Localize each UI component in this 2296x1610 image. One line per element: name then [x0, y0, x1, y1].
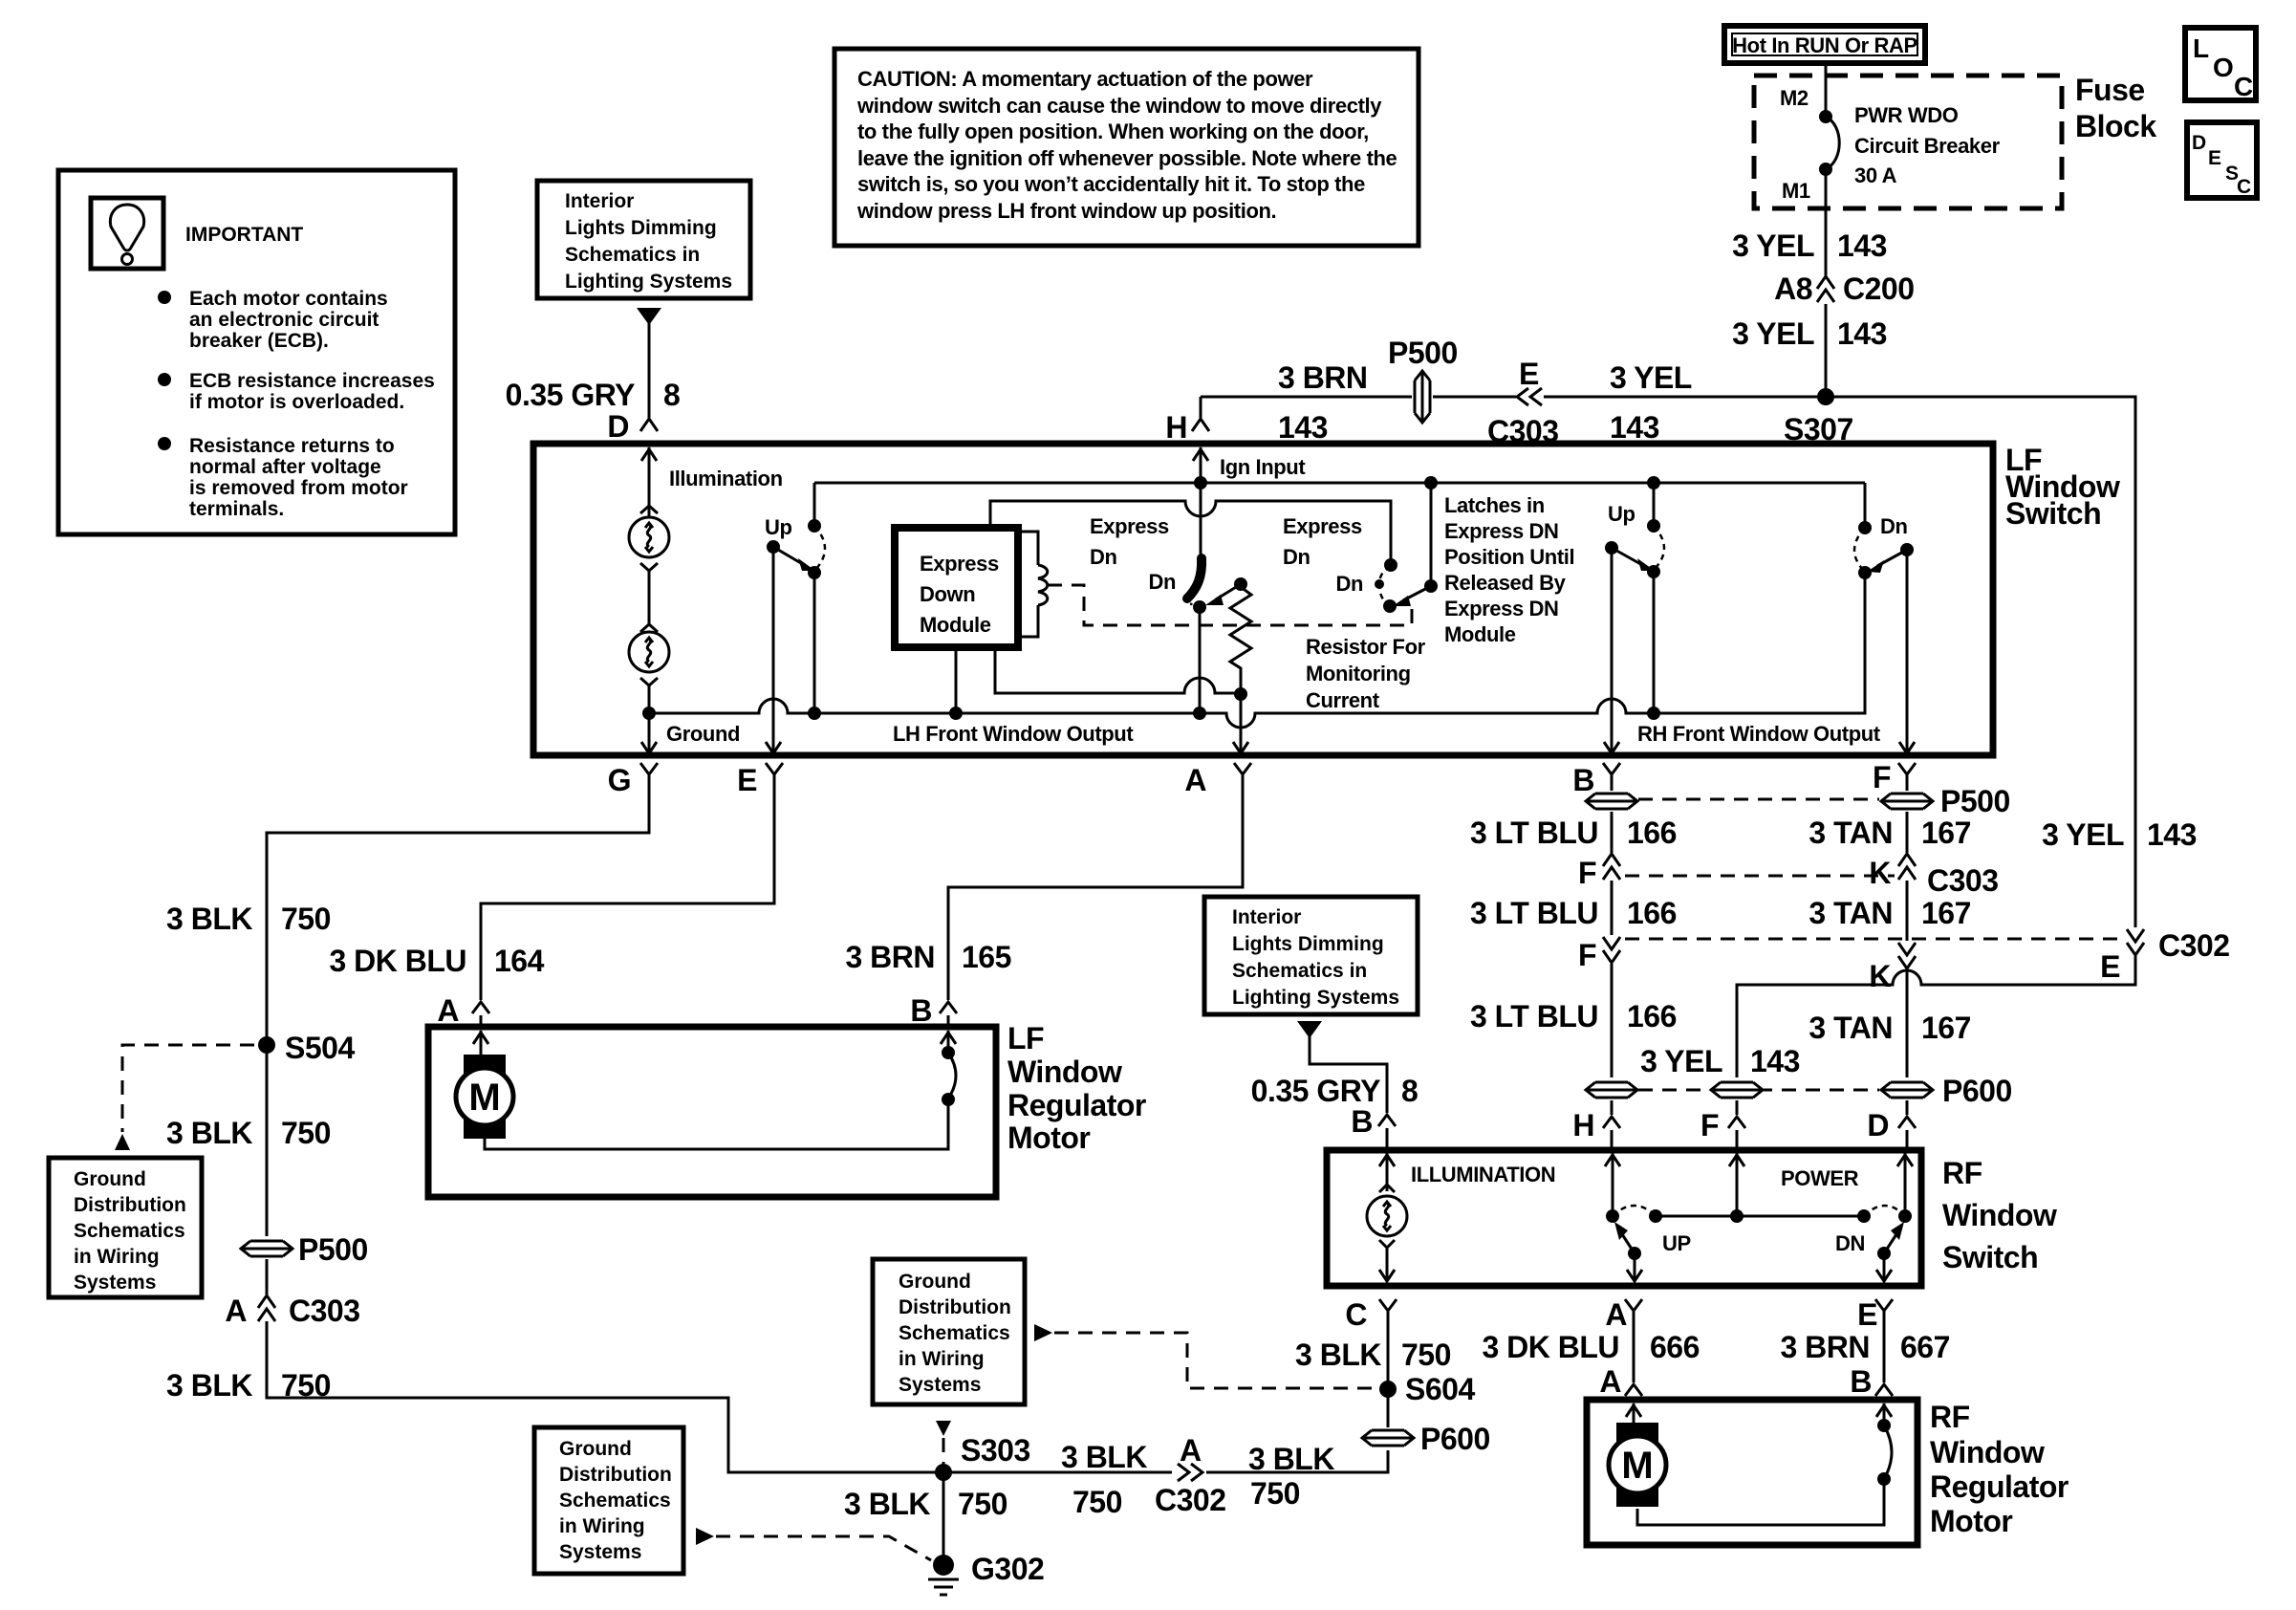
svg-text:H: H	[1165, 410, 1187, 445]
Ground Distribution note box (center)	[873, 1259, 1025, 1404]
svg-text:3 BLK: 3 BLK	[166, 1368, 252, 1403]
svg-text:Released By: Released By	[1444, 571, 1567, 595]
svg-text:Dn: Dn	[1283, 545, 1310, 569]
Illumination input arrow (D)	[648, 447, 651, 516]
splice S303	[935, 1464, 952, 1481]
svg-text:750: 750	[958, 1487, 1007, 1521]
terminal C of RF window switch	[1379, 1299, 1397, 1325]
svg-text:30 A: 30 A	[1854, 163, 1897, 187]
RH Up switch feed	[1647, 476, 1660, 490]
svg-text:Interior: Interior	[565, 190, 634, 212]
Fuse Block dashed box	[1754, 76, 2062, 208]
RF motor input arrows	[1633, 1403, 1635, 1425]
svg-text:143: 143	[1837, 316, 1887, 351]
svg-text:D: D	[607, 409, 629, 444]
svg-text:Fuse: Fuse	[2075, 73, 2145, 107]
svg-text:M1: M1	[1782, 179, 1810, 203]
svg-text:Resistor For: Resistor For	[1306, 635, 1426, 659]
terminal B of RF window switch	[1378, 1115, 1396, 1126]
circuit breaker PWR WDO 30A	[1819, 110, 1832, 123]
module circuit loop bottom	[995, 647, 1241, 693]
dashed link center box to S604	[1034, 1324, 1052, 1341]
svg-text:A: A	[1180, 1433, 1202, 1468]
LF Window Switch box	[533, 444, 1993, 755]
svg-text:3 DK BLU: 3 DK BLU	[329, 944, 466, 978]
svg-text:P600: P600	[1942, 1074, 2012, 1108]
svg-text:C: C	[2234, 72, 2253, 101]
Ground Distribution note box (left)	[49, 1158, 202, 1297]
svg-text:P500: P500	[1388, 336, 1458, 370]
RF switch F feed	[1736, 1153, 1739, 1216]
svg-text:3 YEL: 3 YEL	[1732, 316, 1814, 351]
LF motor input arrows	[480, 1031, 483, 1055]
svg-text:Regulator: Regulator	[1007, 1088, 1146, 1122]
svg-text:S604: S604	[1405, 1372, 1475, 1406]
LOC tag box	[2185, 28, 2256, 101]
illumination lamp 2	[640, 624, 658, 632]
svg-text:3 TAN: 3 TAN	[1809, 896, 1893, 930]
svg-text:Lights Dimming: Lights Dimming	[565, 217, 717, 239]
svg-text:3 BLK: 3 BLK	[1061, 1440, 1147, 1474]
svg-text:F: F	[1873, 760, 1891, 794]
svg-text:Dn: Dn	[1335, 572, 1363, 596]
svg-text:A: A	[1599, 1364, 1621, 1399]
svg-text:3 BLK: 3 BLK	[1295, 1338, 1381, 1372]
svg-text:B: B	[1850, 1364, 1872, 1399]
RF switch D feed	[1904, 1153, 1907, 1216]
wire from Hot tag to breaker	[1825, 63, 1828, 117]
RF DN switch	[1864, 1206, 1905, 1216]
terminal F of RF window switch	[1736, 1100, 1739, 1115]
ground G302	[933, 1555, 954, 1576]
svg-text:E: E	[737, 763, 757, 797]
splice S504	[258, 1036, 275, 1054]
svg-text:8: 8	[663, 378, 680, 412]
svg-text:3 TAN: 3 TAN	[1809, 816, 1893, 850]
svg-text:RF: RF	[1930, 1400, 1970, 1434]
svg-text:3 BLK: 3 BLK	[166, 1116, 252, 1150]
svg-text:166: 166	[1627, 896, 1677, 930]
svg-text:165: 165	[962, 940, 1011, 974]
wire 3 YEL 143 from breaker to S307	[1825, 169, 1828, 275]
svg-text:is removed from motor: is removed from motor	[189, 477, 408, 499]
svg-text:normal after voltage: normal after voltage	[189, 456, 381, 478]
svg-text:667: 667	[1900, 1330, 1950, 1364]
dashed link bottom box to G302	[696, 1528, 714, 1545]
wire E of LF switch to LF motor A (3 DK BLU 164)	[481, 789, 774, 1000]
svg-text:Circuit Breaker: Circuit Breaker	[1854, 134, 2001, 158]
wire S307 to right edge (3 YEL 143)	[1826, 397, 2135, 927]
svg-text:Regulator: Regulator	[1930, 1469, 2069, 1504]
svg-text:in Wiring: in Wiring	[74, 1246, 160, 1268]
ground bus wire (LH Front Window Output) with hops	[649, 573, 1865, 728]
svg-text:ECB resistance increases: ECB resistance increases	[189, 370, 435, 392]
module solenoid coil	[1018, 532, 1038, 637]
RH Up switch	[1647, 519, 1660, 533]
RF motor internal circuit breaker contacts	[1877, 1419, 1891, 1432]
svg-text:E: E	[1857, 1297, 1877, 1332]
svg-text:CAUTION: A momentary actuatio: CAUTION: A momentary actuation of the po…	[857, 67, 1313, 91]
connector C303 pin A	[258, 1295, 275, 1321]
svg-text:3 YEL: 3 YEL	[1732, 228, 1814, 263]
terminal H of LF window switch	[1200, 397, 1202, 418]
svg-text:UP: UP	[1662, 1231, 1691, 1255]
svg-text:Resistance returns to: Resistance returns to	[189, 435, 395, 457]
svg-text:750: 750	[1401, 1338, 1451, 1372]
wire RF switch E to RF motor B (3 BRN 667)	[1883, 1311, 1886, 1382]
svg-text:750: 750	[1072, 1485, 1122, 1519]
svg-text:C302: C302	[2158, 928, 2230, 963]
svg-text:window press LH front window u: window press LH front window up position…	[856, 199, 1276, 223]
LF Up switch: feed wire	[814, 482, 1865, 485]
mechanical dashed link coil to switches	[1048, 585, 1412, 625]
G output arrow	[648, 713, 651, 751]
RF switch power bus	[1656, 1215, 1864, 1218]
LF Window Regulator Motor box	[428, 1027, 996, 1197]
svg-text:C303: C303	[1927, 863, 1999, 898]
svg-text:Current: Current	[1306, 688, 1380, 712]
svg-text:143: 143	[2147, 817, 2197, 852]
dashed link from center ground box to S303	[936, 1421, 951, 1436]
svg-text:164: 164	[494, 944, 545, 978]
svg-text:Module: Module	[1444, 622, 1516, 646]
svg-text:Schematics: Schematics	[559, 1490, 671, 1512]
svg-text:C: C	[2237, 176, 2251, 198]
svg-text:an electronic circuit: an electronic circuit	[189, 309, 379, 331]
svg-text:Ign Input: Ign Input	[1220, 455, 1306, 479]
RF Window Switch box	[1327, 1150, 1921, 1286]
svg-text:3 YEL: 3 YEL	[1640, 1044, 1722, 1078]
dashed connector rows	[1638, 798, 1879, 801]
svg-text:143: 143	[1750, 1044, 1800, 1078]
svg-text:8: 8	[1401, 1074, 1418, 1108]
wire to C303	[266, 1259, 269, 1295]
svg-text:switch is, so you won’t accide: switch is, so you won’t accidentally hit…	[857, 172, 1365, 196]
svg-text:IMPORTANT: IMPORTANT	[185, 224, 303, 246]
svg-text:Lighting Systems: Lighting Systems	[565, 271, 732, 293]
inline connector P600 on C-wire	[1361, 1427, 1415, 1448]
terminal B of LF motor	[940, 1002, 957, 1013]
svg-text:POWER: POWER	[1781, 1166, 1859, 1190]
svg-text:Express DN: Express DN	[1444, 597, 1559, 620]
svg-text:3 YEL: 3 YEL	[2042, 817, 2124, 852]
svg-text:3 LT BLU: 3 LT BLU	[1470, 896, 1598, 930]
svg-text:Schematics in: Schematics in	[565, 244, 700, 266]
svg-text:C303: C303	[289, 1294, 360, 1328]
Interior Lights Dimming note box (top)	[537, 181, 750, 298]
LF motor internal circuit breaker contacts	[942, 1046, 955, 1059]
svg-text:Express: Express	[920, 552, 999, 576]
Hot In RUN Or RAP power tag	[1724, 26, 1925, 63]
svg-text:3 DK BLU: 3 DK BLU	[1482, 1330, 1619, 1364]
ground wire run to S303	[267, 1321, 1172, 1472]
B output wire from RH Up pivot	[1611, 548, 1614, 751]
svg-text:Schematics: Schematics	[899, 1322, 1010, 1344]
Ign Input arrow (H)	[1200, 447, 1202, 483]
svg-text:167: 167	[1921, 816, 1971, 850]
Ground Distribution note box (bottom)	[534, 1427, 683, 1574]
wire B of LF switch down to RF switch H (3 LT BLU 166)	[1611, 789, 1614, 791]
svg-text:Down: Down	[920, 582, 975, 606]
svg-text:B: B	[1351, 1104, 1373, 1139]
terminal D of LF window switch	[640, 404, 658, 431]
RH Dn switch	[1858, 521, 1872, 534]
svg-text:D: D	[1867, 1108, 1889, 1142]
svg-text:3 BRN: 3 BRN	[1278, 360, 1368, 395]
svg-text:S303: S303	[961, 1433, 1030, 1468]
svg-text:F: F	[1700, 1108, 1719, 1142]
wire F of LF switch down to RF switch D (3 TAN 167)	[1906, 789, 1909, 791]
svg-text:G: G	[608, 763, 631, 797]
svg-text:terminals.: terminals.	[189, 498, 284, 520]
svg-text:Up: Up	[1608, 502, 1635, 526]
svg-text:143: 143	[1610, 410, 1659, 445]
svg-text:Ground: Ground	[559, 1438, 632, 1460]
wire S303 to G302	[942, 1472, 945, 1558]
F output wire from RH Dn pivot	[1906, 550, 1909, 751]
ground wire G to S504/C303 run	[267, 789, 649, 1236]
svg-text:Systems: Systems	[899, 1374, 981, 1396]
svg-text:143: 143	[1278, 410, 1328, 445]
svg-text:A8: A8	[1774, 272, 1812, 306]
svg-text:0.35 GRY: 0.35 GRY	[506, 378, 635, 412]
connector C302 pin A (horizontal)	[1178, 1464, 1202, 1481]
svg-text:750: 750	[281, 1116, 331, 1150]
svg-text:window switch can cause the wi: window switch can cause the window to mo…	[856, 94, 1382, 118]
RF UP switch	[1613, 1206, 1656, 1216]
CAUTION note box	[834, 49, 1419, 246]
resistor for monitoring current	[1234, 577, 1247, 591]
svg-text:A: A	[225, 1294, 247, 1328]
svg-text:Switch: Switch	[2005, 496, 2101, 531]
svg-text:RF: RF	[1942, 1156, 1982, 1190]
svg-text:A: A	[1184, 763, 1206, 797]
RH Dn switch feed corner	[1864, 483, 1867, 527]
terminal B	[1603, 763, 1620, 789]
IMPORTANT note box	[58, 170, 455, 534]
RF switch H feed	[1612, 1153, 1614, 1216]
svg-text:Ground: Ground	[899, 1271, 971, 1293]
svg-text:Illumination: Illumination	[669, 467, 783, 490]
svg-text:3 BLK: 3 BLK	[844, 1487, 930, 1521]
LF Up switch contacts	[808, 519, 821, 533]
svg-text:C: C	[1345, 1297, 1367, 1332]
svg-text:Each motor contains: Each motor contains	[189, 288, 388, 310]
svg-text:L: L	[2193, 33, 2209, 63]
svg-text:DN: DN	[1835, 1231, 1865, 1255]
svg-text:H: H	[1572, 1108, 1594, 1142]
svg-text:Monitoring: Monitoring	[1306, 662, 1411, 685]
connector C303 pin E (on horizontal wire)	[1517, 388, 1542, 405]
terminal F	[1898, 763, 1916, 789]
svg-text:C200: C200	[1843, 272, 1915, 306]
wire S307 to H (3 BRN 143)	[1201, 396, 1516, 399]
wire GRY 8 to terminal D	[648, 323, 651, 418]
svg-text:Distribution: Distribution	[74, 1194, 186, 1216]
terminal E of RF switch	[1875, 1299, 1893, 1325]
terminal B of RF motor	[1875, 1384, 1893, 1396]
svg-text:3 BLK: 3 BLK	[1248, 1442, 1334, 1476]
svg-text:167: 167	[1921, 896, 1971, 930]
terminal A of LF motor	[472, 1002, 489, 1013]
splice S307	[1817, 388, 1834, 405]
inline connector P500 on S307-H wire	[1412, 370, 1433, 424]
svg-text:D: D	[2192, 132, 2206, 154]
svg-text:Dn: Dn	[1148, 570, 1176, 594]
svg-text:3 LT BLU: 3 LT BLU	[1470, 816, 1598, 850]
arrow from Interior Lights box	[637, 308, 661, 325]
DESC tag box	[2187, 122, 2257, 198]
svg-text:Ground: Ground	[666, 722, 740, 746]
svg-text:K: K	[1869, 856, 1891, 890]
svg-text:3 LT BLU: 3 LT BLU	[1470, 999, 1598, 1033]
svg-text:S504: S504	[285, 1031, 355, 1065]
wire right edge down to RF switch F (3 YEL 143)	[1737, 956, 2135, 1077]
svg-text:Express: Express	[1090, 514, 1169, 538]
motor M (RF)	[1609, 1423, 1666, 1507]
Express Down Module box	[895, 528, 1018, 647]
splice S604	[1387, 1311, 1390, 1427]
arrow from second Interior Lights box	[1297, 1021, 1322, 1038]
svg-text:3 YEL: 3 YEL	[1610, 360, 1692, 395]
svg-text:Hot In RUN Or RAP: Hot In RUN Or RAP	[1732, 33, 1917, 57]
svg-text:in Wiring: in Wiring	[559, 1515, 645, 1537]
svg-text:E: E	[2100, 949, 2120, 984]
terminal A of RF switch	[1625, 1299, 1642, 1325]
terminal A	[1234, 763, 1251, 789]
svg-text:Block: Block	[2075, 109, 2156, 143]
connector C302 pin E (right edge)	[2127, 929, 2144, 955]
svg-text:M2: M2	[1780, 86, 1809, 110]
svg-text:Distribution: Distribution	[559, 1464, 672, 1486]
svg-text:Lights Dimming: Lights Dimming	[1232, 933, 1384, 955]
svg-text:Window: Window	[1930, 1435, 2045, 1469]
svg-text:LH Front Window Output: LH Front Window Output	[893, 722, 1134, 746]
svg-text:G302: G302	[971, 1552, 1044, 1586]
latch switch arm	[1403, 586, 1431, 600]
svg-text:P600: P600	[1420, 1422, 1490, 1456]
svg-text:3 TAN: 3 TAN	[1809, 1011, 1893, 1045]
terminal A of RF motor	[1625, 1384, 1642, 1396]
svg-text:F: F	[1578, 856, 1596, 890]
svg-text:Systems: Systems	[559, 1541, 641, 1563]
svg-text:Express: Express	[1283, 514, 1362, 538]
svg-text:Systems: Systems	[74, 1272, 156, 1294]
Ign junction	[1194, 476, 1207, 490]
terminal G	[640, 763, 658, 789]
junction lamp/ground	[642, 707, 656, 720]
svg-text:3 BRN: 3 BRN	[845, 940, 935, 974]
svg-text:P500: P500	[1940, 784, 2010, 818]
svg-text:A: A	[1605, 1297, 1627, 1332]
svg-text:leave the ignition off wheneve: leave the ignition off whenever possible…	[857, 146, 1397, 170]
svg-text:3 BLK: 3 BLK	[166, 902, 252, 936]
illumination lamp 1	[640, 506, 658, 513]
svg-text:167: 167	[1921, 1011, 1971, 1045]
svg-text:ILLUMINATION: ILLUMINATION	[1411, 1163, 1555, 1186]
svg-text:Dn: Dn	[1090, 545, 1117, 569]
svg-text:Distribution: Distribution	[899, 1296, 1011, 1318]
svg-text:A: A	[437, 993, 459, 1028]
svg-text:Dn: Dn	[1880, 514, 1908, 538]
svg-text:K: K	[1869, 959, 1891, 993]
svg-text:750: 750	[281, 902, 331, 936]
Interior Lights Dimming note box (second)	[1204, 897, 1418, 1014]
dashed reference link S504 to ground distribution box	[122, 1045, 254, 1132]
svg-text:0.35 GRY: 0.35 GRY	[1251, 1074, 1380, 1108]
svg-text:PWR WDO: PWR WDO	[1854, 103, 1959, 127]
svg-text:B: B	[910, 993, 932, 1028]
svg-text:Position Until: Position Until	[1444, 545, 1574, 569]
module circuit loop top	[990, 501, 1391, 565]
wire C302 to P600 riser	[1206, 1450, 1388, 1472]
svg-text:3 BRN: 3 BRN	[1780, 1330, 1870, 1364]
Express Dn switch (thick arm)	[1200, 483, 1202, 559]
wire A of LF switch to LF motor B (3 BRN 165)	[948, 789, 1243, 1000]
svg-text:in Wiring: in Wiring	[899, 1348, 985, 1370]
svg-text:Interior: Interior	[1232, 906, 1301, 928]
svg-text:O: O	[2213, 53, 2234, 82]
svg-text:Lighting Systems: Lighting Systems	[1232, 987, 1399, 1009]
svg-text:C302: C302	[1155, 1483, 1226, 1517]
svg-text:166: 166	[1627, 999, 1677, 1033]
svg-text:P500: P500	[298, 1232, 368, 1267]
svg-text:RH Front Window Output: RH Front Window Output	[1637, 722, 1881, 746]
svg-text:166: 166	[1627, 816, 1677, 850]
latch switch feed	[1424, 476, 1438, 490]
terminal E	[766, 763, 783, 789]
svg-text:to the fully open position. W: to the fully open position. When working…	[857, 120, 1369, 143]
motor M (LF)	[456, 1055, 513, 1139]
svg-text:750: 750	[1250, 1476, 1300, 1511]
svg-text:Switch: Switch	[1942, 1240, 2038, 1274]
svg-text:Up: Up	[765, 515, 792, 539]
E output wire from Up pivot	[772, 547, 775, 751]
Express Dn wiper arrow from resistor	[1216, 584, 1241, 599]
svg-text:if motor is overloaded.: if motor is overloaded.	[189, 391, 404, 413]
svg-text:Schematics in: Schematics in	[1232, 960, 1367, 982]
svg-text:Express DN: Express DN	[1444, 519, 1559, 543]
svg-text:E: E	[1519, 357, 1539, 391]
svg-text:Schematics: Schematics	[74, 1220, 185, 1242]
svg-text:Motor: Motor	[1007, 1120, 1090, 1155]
svg-text:Window: Window	[1007, 1055, 1122, 1089]
svg-text:Window: Window	[1942, 1198, 2057, 1232]
module output to ground bus	[955, 647, 958, 713]
svg-text:Ground: Ground	[74, 1168, 146, 1190]
svg-text:Latches in: Latches in	[1444, 493, 1545, 517]
wire GRY 8 to RF switch B	[1310, 1036, 1387, 1113]
connector C200 pin A8	[1817, 276, 1834, 302]
wire RF switch A to RF motor A (3 DK BLU 666)	[1633, 1311, 1635, 1382]
svg-text:E: E	[2208, 147, 2221, 169]
svg-text:F: F	[1578, 938, 1596, 972]
wire between lamps	[648, 571, 651, 624]
svg-text:Motor: Motor	[1930, 1504, 2012, 1538]
RF switch illumination branch	[1386, 1153, 1389, 1191]
svg-text:143: 143	[1837, 228, 1887, 263]
svg-text:LF: LF	[1007, 1021, 1044, 1055]
inline connector P500 on ground wire	[240, 1238, 293, 1259]
svg-text:Module: Module	[920, 613, 991, 637]
svg-text:breaker (ECB).: breaker (ECB).	[189, 330, 329, 352]
RF Window Regulator Motor box	[1587, 1400, 1917, 1545]
wire lamp2 to ground junction	[648, 685, 651, 713]
svg-text:666: 666	[1650, 1330, 1700, 1364]
